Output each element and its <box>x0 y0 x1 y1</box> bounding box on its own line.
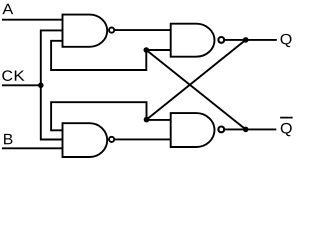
wire G1 output to G3 input 1 <box>115 29 171 31</box>
wire feedback from node R to gate G2 input 1 <box>51 102 146 130</box>
node Q-bar junction <box>243 127 249 133</box>
output label Q-bar <box>280 118 293 137</box>
input label B <box>4 134 12 144</box>
wire G3 output to Q <box>225 39 277 41</box>
wire CK riser <box>41 30 63 139</box>
nand-gate G3 <box>171 24 225 57</box>
input label CK <box>2 70 12 81</box>
wire feedback from node S to gate G1 input 3 <box>51 41 146 70</box>
nand-gate G4 <box>171 113 225 147</box>
output label Q <box>281 34 292 47</box>
wire G2 output to G4 input 2 <box>115 138 171 140</box>
node R (feedback junction bottom) <box>144 117 150 123</box>
wire node S to G3 input 2 <box>146 49 170 51</box>
wire A input <box>2 19 63 21</box>
wire G4 output to Q-bar <box>225 128 276 130</box>
wire CK input <box>2 84 41 86</box>
nand-gate G2 <box>63 123 115 157</box>
input label A <box>2 4 13 14</box>
node CK junction <box>38 83 44 89</box>
node Q junction <box>243 37 249 43</box>
wire B input <box>2 147 63 149</box>
wire cross-coupling Q-bar node to node S diagonal <box>146 50 245 129</box>
wire node R to G4 input 1 <box>147 119 171 121</box>
wire cross-coupling Q node to node R diagonal <box>147 40 246 120</box>
nand-gate G1 <box>63 15 115 47</box>
node S (feedback junction top) <box>144 47 150 53</box>
